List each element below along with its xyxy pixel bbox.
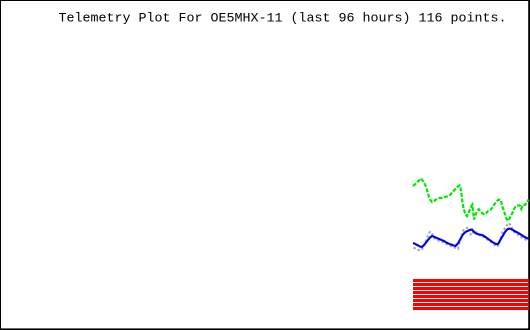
grey companion trace bbox=[414, 223, 529, 251]
blue telemetry trace bbox=[413, 229, 529, 247]
red striped block bbox=[413, 279, 529, 310]
green telemetry trace bbox=[413, 179, 529, 221]
svg-text:Telemetry Plot For OE5MHX-11 (: Telemetry Plot For OE5MHX-11 (last 96 ho… bbox=[59, 12, 507, 27]
